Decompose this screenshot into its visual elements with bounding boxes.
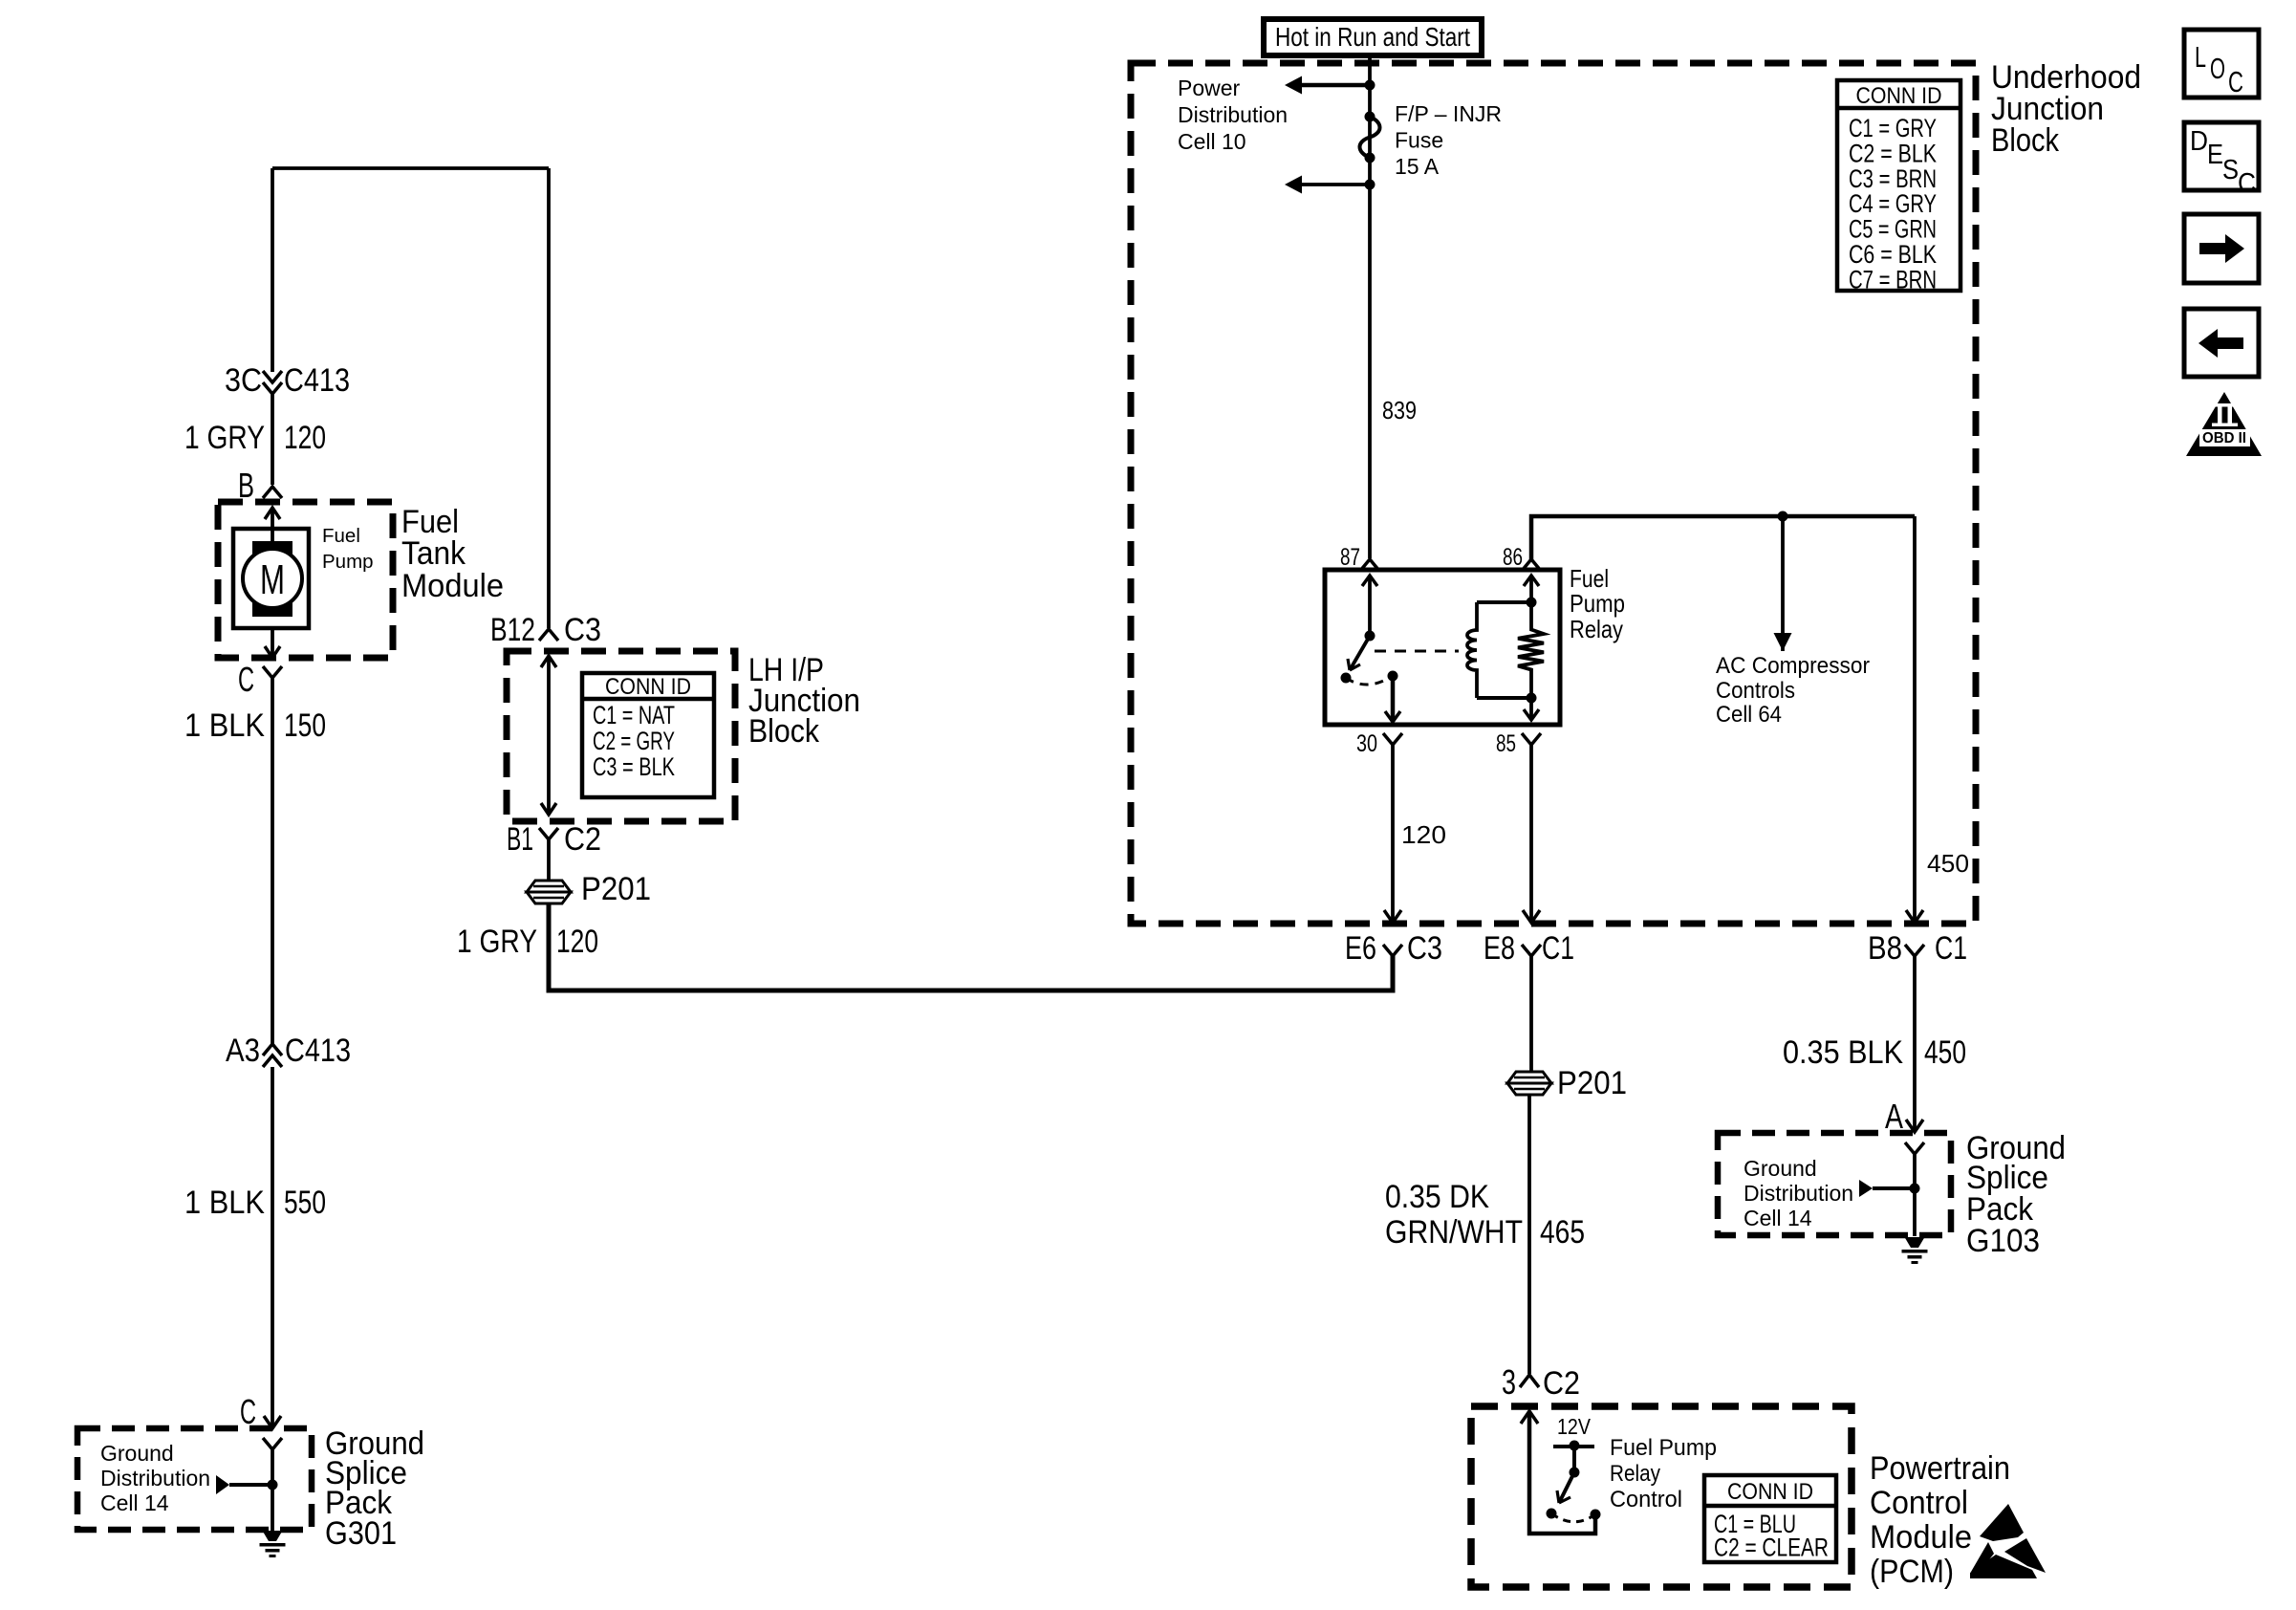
svg-text:Tank: Tank	[401, 535, 466, 572]
svg-text:12V: 12V	[1557, 1414, 1591, 1439]
svg-text:S: S	[2222, 155, 2239, 185]
svg-text:A3: A3	[226, 1033, 260, 1069]
svg-text:150: 150	[284, 707, 326, 744]
svg-text:Module: Module	[401, 568, 504, 604]
svg-text:Cell 14: Cell 14	[100, 1490, 169, 1515]
svg-text:AC Compressor: AC Compressor	[1716, 653, 1870, 679]
svg-text:Distribution: Distribution	[1744, 1181, 1853, 1206]
svg-text:C413: C413	[285, 1033, 351, 1069]
svg-text:E: E	[2207, 140, 2223, 170]
svg-text:Controls: Controls	[1716, 678, 1795, 704]
svg-text:Powertrain: Powertrain	[1870, 1450, 2010, 1487]
svg-text:Module: Module	[1870, 1519, 1972, 1556]
svg-text:0.35 DK: 0.35 DK	[1385, 1179, 1489, 1215]
svg-text:Block: Block	[1991, 122, 2060, 159]
svg-text:M: M	[260, 556, 285, 603]
svg-text:P201: P201	[1557, 1065, 1627, 1101]
svg-text:C3: C3	[564, 612, 601, 648]
svg-text:1 GRY: 1 GRY	[184, 420, 265, 456]
svg-text:L: L	[2195, 40, 2206, 74]
svg-text:Fuse: Fuse	[1395, 128, 1443, 153]
svg-text:1 BLK: 1 BLK	[184, 1185, 265, 1221]
svg-text:15 A: 15 A	[1395, 154, 1440, 179]
svg-text:P201: P201	[581, 871, 651, 907]
svg-text:Pump: Pump	[322, 551, 374, 573]
svg-text:3C: 3C	[225, 362, 262, 399]
svg-text:C1 = NAT: C1 = NAT	[593, 701, 675, 729]
svg-text:C2: C2	[1543, 1365, 1580, 1402]
svg-text:120: 120	[284, 420, 326, 456]
svg-text:86: 86	[1503, 544, 1523, 571]
svg-text:G301: G301	[325, 1515, 397, 1552]
svg-text:C3 = BLK: C3 = BLK	[593, 752, 675, 781]
svg-text:B12: B12	[490, 612, 535, 648]
svg-text:Ground: Ground	[100, 1441, 174, 1466]
svg-text:30: 30	[1356, 730, 1377, 757]
svg-text:GRN/WHT: GRN/WHT	[1385, 1214, 1523, 1251]
svg-text:E8: E8	[1484, 930, 1515, 967]
svg-text:C2: C2	[564, 821, 601, 858]
svg-text:G103: G103	[1966, 1223, 2040, 1259]
svg-text:87: 87	[1340, 544, 1360, 571]
svg-text:C413: C413	[284, 362, 350, 399]
svg-text:Relay: Relay	[1610, 1461, 1660, 1487]
svg-text:O: O	[2210, 52, 2225, 85]
svg-text:F/P – INJR: F/P – INJR	[1395, 101, 1502, 126]
svg-text:E6: E6	[1345, 930, 1376, 967]
svg-text:C1: C1	[1935, 930, 1967, 967]
svg-text:Fuel: Fuel	[322, 525, 360, 547]
svg-text:0.35 BLK: 0.35 BLK	[1783, 1034, 1903, 1071]
svg-text:Cell 10: Cell 10	[1178, 129, 1246, 154]
svg-text:Power: Power	[1178, 76, 1241, 100]
svg-text:Control: Control	[1870, 1485, 1968, 1521]
svg-text:C2 = GRY: C2 = GRY	[593, 727, 675, 755]
svg-text:C2 = CLEAR: C2 = CLEAR	[1714, 1534, 1829, 1562]
svg-text:Pump: Pump	[1570, 589, 1625, 618]
svg-text:(PCM): (PCM)	[1870, 1554, 1954, 1590]
svg-text:CONN ID: CONN ID	[605, 674, 691, 700]
svg-text:B8: B8	[1868, 930, 1902, 967]
svg-text:3: 3	[1502, 1362, 1516, 1402]
svg-text:C: C	[2228, 65, 2243, 98]
svg-text:Control: Control	[1610, 1487, 1682, 1512]
svg-text:C3: C3	[1407, 930, 1442, 967]
svg-text:Relay: Relay	[1570, 615, 1623, 643]
svg-text:Block: Block	[748, 713, 820, 750]
svg-text:C: C	[2238, 168, 2256, 199]
svg-text:450: 450	[1927, 849, 1969, 878]
svg-text:C: C	[238, 660, 254, 699]
svg-text:CONN ID: CONN ID	[1856, 83, 1942, 109]
svg-text:Distribution: Distribution	[100, 1466, 210, 1490]
svg-text:1 BLK: 1 BLK	[184, 707, 265, 744]
svg-text:Fuel Pump: Fuel Pump	[1610, 1435, 1717, 1461]
svg-text:Distribution: Distribution	[1178, 102, 1288, 127]
svg-text:450: 450	[1924, 1034, 1966, 1071]
svg-text:120: 120	[556, 924, 598, 960]
svg-text:Cell 14: Cell 14	[1744, 1206, 1812, 1230]
svg-text:Ground: Ground	[1744, 1156, 1817, 1181]
svg-text:1 GRY: 1 GRY	[457, 924, 537, 960]
svg-text:85: 85	[1496, 730, 1516, 757]
svg-text:CONN ID: CONN ID	[1727, 1479, 1813, 1505]
svg-text:D: D	[2190, 126, 2208, 157]
svg-text:C7 = BRN: C7 = BRN	[1849, 265, 1937, 294]
svg-text:Cell 64: Cell 64	[1716, 702, 1782, 728]
svg-text:120: 120	[1401, 820, 1446, 849]
svg-text:OBD II: OBD II	[2202, 430, 2246, 446]
svg-text:839: 839	[1382, 396, 1417, 424]
svg-text:B1: B1	[507, 821, 533, 858]
svg-text:Hot in Run and Start: Hot in Run and Start	[1275, 22, 1470, 52]
svg-text:465: 465	[1540, 1214, 1585, 1251]
svg-text:550: 550	[284, 1185, 326, 1221]
svg-text:C1: C1	[1542, 930, 1574, 967]
